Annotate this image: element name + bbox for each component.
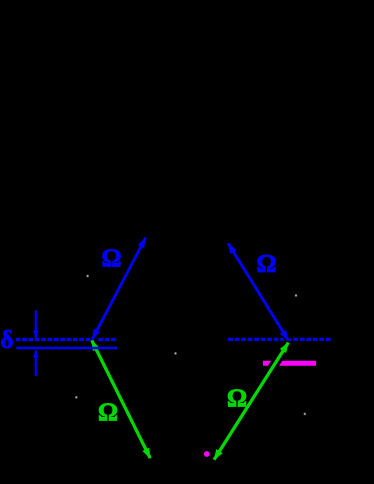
svg-text:Ω: Ω: [227, 385, 247, 412]
svg-text:δ: δ: [1, 327, 14, 354]
svg-text:Ω: Ω: [257, 251, 277, 278]
excited state level |e> (black, invisible on black bg): [141, 231, 233, 233]
right real level (black, invisible): [237, 351, 322, 353]
magenta light-shifted level line: [263, 361, 316, 366]
svg-text:Ω: Ω: [98, 399, 118, 426]
faint gray speck 5: [303, 412, 306, 415]
right dashed blue virtual level: [228, 338, 330, 341]
faint gray speck 3: [75, 396, 78, 399]
black halo under left green arrow: [92, 341, 150, 459]
left blue pump arrow (double-headed), virtual level up to excited state: [92, 238, 145, 340]
black halo under right green arrow (covers magenta at crossing): [214, 343, 288, 460]
right blue pump arrow (double-headed): [228, 243, 288, 340]
right green Stokes arrow (double-headed): [214, 343, 288, 460]
left green Stokes arrow (double-headed), virtual level down to bottom level: [92, 341, 150, 459]
black halo under left blue arrow: [92, 238, 145, 340]
faint gray speck 2: [294, 294, 297, 297]
faint gray speck 1 (antialias remnant): [86, 274, 89, 277]
small blue arrow above delta gap, pointing down: [35, 311, 37, 338]
magenta dot near bottom level: [204, 451, 210, 457]
svg-text:Ω: Ω: [102, 245, 122, 272]
ground state level |g> bottom (black, invisible): [146, 459, 218, 461]
left solid blue level: [16, 347, 117, 349]
left dashed blue virtual level: [16, 338, 116, 341]
black halo under right blue arrow: [228, 243, 288, 340]
small blue arrow below delta gap, pointing up: [35, 350, 37, 376]
faint gray speck 4: [174, 352, 177, 355]
